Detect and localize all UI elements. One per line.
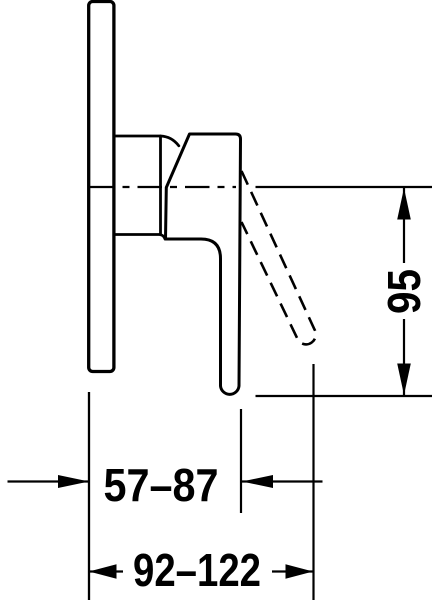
dimension 95 arrow up <box>397 188 411 220</box>
cartridge housing between plate and lever <box>114 136 165 239</box>
extension line below dashed lever tip <box>312 364 314 600</box>
dimension 57-87 right arrow <box>242 475 273 488</box>
dimension 57-87 right leader <box>242 480 323 482</box>
svg-text:57–87: 57–87 <box>104 459 219 511</box>
dimension 95 line <box>403 188 405 395</box>
lever handle (closed position, solid) <box>166 134 241 394</box>
svg-text:95: 95 <box>380 269 431 314</box>
dimension 57-87 left arrow <box>58 475 89 488</box>
dimension 92-122 line <box>89 570 314 572</box>
dimension 92-122 label background <box>123 549 272 591</box>
extension line at handle bottom level <box>256 395 432 397</box>
dashed lever (open position) <box>242 171 316 344</box>
extension line below handle <box>240 409 242 513</box>
dimension 95 arrow down <box>397 364 411 396</box>
svg-text:92–122: 92–122 <box>133 544 261 596</box>
extension line right of lever (top, at centerline height) <box>256 186 432 188</box>
extension line below plate <box>88 392 90 600</box>
wall plate (escutcheon, side view) <box>89 2 114 372</box>
dimension 57-87 left leader <box>8 480 90 482</box>
dimension 92-122 right arrow <box>286 564 314 578</box>
centerline (dash-dot) through cartridge <box>90 186 236 188</box>
cartridge dome arc <box>161 136 179 146</box>
dimension 92-122 left arrow <box>89 564 117 578</box>
